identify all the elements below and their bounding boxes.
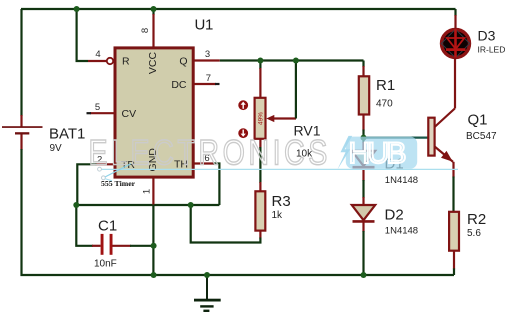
transistor Q1 emitter arrowhead (441, 151, 453, 162)
svg-text:R3: R3 (272, 193, 291, 210)
svg-text:Q1: Q1 (468, 112, 488, 129)
svg-text:CV: CV (122, 108, 137, 120)
junction node R1 bottom / D1 / Q1 base (361, 135, 367, 141)
junction node D2 cathode on ground bus (361, 272, 367, 278)
junction node vcc pin8 on top bus (151, 6, 157, 12)
wire pin4 red stub (88, 60, 107, 62)
svg-text:R1: R1 (376, 77, 395, 94)
wire pin2 trigger stub (96, 163, 116, 165)
wire node bus y205 (76, 204, 219, 206)
watermark thin cyan diagonals (105, 164, 131, 177)
watermark HUB box (346, 137, 417, 169)
wire wiper to output node (295, 61, 297, 119)
watermark lightning bolt (337, 136, 352, 170)
svg-text:R2: R2 (467, 211, 486, 228)
junction node RV1 top on output net (257, 58, 263, 64)
svg-text:4: 4 (95, 49, 100, 60)
wire pin6 threshold stub (194, 162, 215, 164)
svg-text:DC: DC (171, 79, 187, 91)
wire RV1 bottom (259, 139, 261, 148)
wire LED top lead (454, 9, 456, 16)
wiper arrowhead (266, 115, 274, 122)
transistor Q1 base bar (428, 118, 434, 156)
wire R1 top feed (362, 61, 364, 68)
wire base run Q1 (364, 137, 429, 139)
resistor R1 (359, 76, 369, 114)
svg-text:VCC: VCC (147, 51, 159, 74)
wire pin5 cv stub (90, 112, 115, 114)
wire pin7 discharge stub (194, 83, 216, 85)
junction node R3 return on gnd-pin net (188, 202, 194, 208)
wire Q1 emitter to R2 (452, 162, 454, 178)
resistor R2 (449, 212, 459, 251)
wire battery positive lead (20, 9, 22, 116)
svg-text:R: R (122, 56, 130, 68)
svg-text:1: 1 (142, 189, 153, 194)
wire pin6 to node (214, 164, 220, 206)
svg-text:1N4148: 1N4148 (385, 226, 418, 237)
wire C1 right leg (113, 245, 132, 247)
wire D2 to ground bus (362, 219, 364, 232)
junction node ground symbol tap (204, 272, 210, 278)
svg-text:1N4148: 1N4148 (385, 175, 418, 186)
battery BAT1 plates (2, 126, 43, 128)
wire LED bottom to Q1 collector (454, 58, 456, 109)
svg-text:D3: D3 (478, 28, 496, 44)
wire pin1 gnd stub (152, 178, 154, 206)
diode D2 (352, 205, 375, 220)
RV1 up button (238, 100, 248, 110)
watermark small circles near TR (98, 167, 102, 171)
ground symbol (206, 275, 208, 300)
svg-text:IR-LED: IR-LED (478, 45, 506, 55)
wire D1 top feed (362, 114, 364, 130)
svg-text:49%: 49% (257, 112, 264, 125)
wire pin8 vcc (152, 9, 154, 15)
RV1 down button (238, 128, 248, 138)
svg-text:7: 7 (206, 73, 211, 84)
transistor Q1 collector diagonal (435, 109, 455, 128)
svg-text:D2: D2 (385, 207, 404, 224)
svg-text:5.6: 5.6 (467, 228, 481, 239)
wire C1 left leg (76, 205, 93, 246)
svg-text:8: 8 (140, 28, 151, 33)
svg-text:BC547: BC547 (466, 131, 497, 142)
junction node trigger/C1 left (73, 202, 79, 208)
LED D3 inner diamond frame (441, 29, 469, 58)
svg-text:Q: Q (179, 56, 187, 68)
wire pin3 output stub (194, 59, 220, 61)
IC U1 555 body (115, 48, 193, 177)
svg-text:555 Timer: 555 Timer (101, 179, 136, 188)
wire pin2 trigger to node (77, 164, 96, 205)
svg-text:10nF: 10nF (94, 259, 117, 270)
resistor R3 (255, 191, 265, 230)
wire top power bus (21, 8, 456, 10)
wire pin3 output run (220, 59, 364, 61)
junction node pin1 net on ground bus (151, 272, 157, 278)
potentiometer RV1 body (255, 98, 266, 139)
pin4 inversion bubble (107, 58, 113, 64)
wire pin4 reset branch (77, 9, 88, 61)
svg-text:470: 470 (376, 99, 393, 110)
svg-text:HUB: HUB (349, 137, 408, 170)
capacitor C1 plates (101, 234, 104, 255)
junction node C1 right on pin1 net (151, 243, 157, 249)
svg-text:5: 5 (95, 102, 100, 113)
junction node reset branch on top bus (74, 6, 80, 12)
svg-text:C1: C1 (98, 218, 117, 235)
wire R3 bottom return (259, 231, 261, 239)
wire battery negative lead (20, 134, 22, 151)
diode D1 (352, 151, 375, 166)
wire RV1 wiper (270, 117, 296, 119)
svg-text:U1: U1 (195, 17, 214, 34)
transistor Q1 emitter diagonal (435, 147, 453, 162)
LED D3 inner diode symbol (454, 29, 457, 49)
wire RV1 top feed (259, 61, 261, 70)
svg-text:3: 3 (205, 49, 210, 60)
wire pin1 down to ground bus (152, 205, 154, 276)
watermark cyan underline (101, 168, 458, 170)
svg-text:9V: 9V (50, 143, 63, 154)
LED D3 body (442, 30, 470, 58)
wire R2 bottom (453, 251, 455, 270)
junction node wiper riser on output net (293, 58, 299, 64)
wire D1 to D2 (362, 170, 364, 181)
svg-text:1k: 1k (272, 210, 284, 221)
svg-text:BAT1: BAT1 (49, 126, 85, 143)
